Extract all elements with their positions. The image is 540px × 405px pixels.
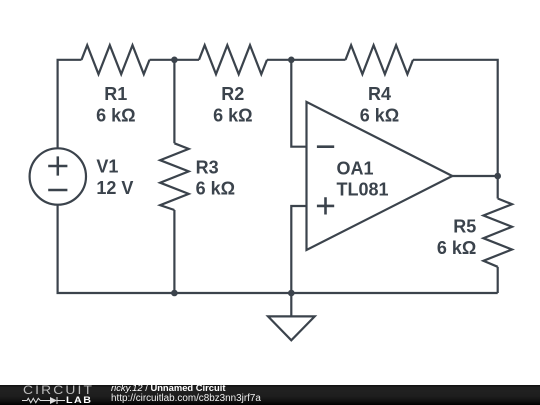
- svg-text:R4: R4: [368, 84, 391, 104]
- svg-text:R2: R2: [221, 84, 244, 104]
- resistor R5: [483, 199, 512, 267]
- wire output node down to R5: [497, 176, 499, 199]
- wire R5 to bottom rail: [497, 267, 499, 293]
- CircuitLab logo text LAB: [66, 396, 92, 405]
- op-amp plus input symbol: [317, 197, 334, 214]
- V1 minus sign: [48, 189, 67, 192]
- resistor R1: [82, 45, 150, 74]
- V1 plus sign: [48, 156, 67, 175]
- svg-text:R5: R5: [453, 217, 476, 237]
- junction output node (op-amp out / R4 / R5): [494, 173, 501, 180]
- svg-text:R3: R3: [196, 157, 219, 177]
- op-amp minus input symbol: [317, 145, 334, 148]
- junction node A (R1/R2/R3): [171, 57, 178, 64]
- wire R2 to node B: [267, 59, 291, 61]
- svg-text:6 kΩ: 6 kΩ: [213, 105, 252, 125]
- svg-text:6 kΩ: 6 kΩ: [96, 105, 135, 125]
- junction R3 bottom: [171, 290, 178, 297]
- svg-text:OA1: OA1: [337, 158, 374, 178]
- wire R3 to bottom rail: [173, 210, 175, 293]
- CircuitLab logo text CIRCUIT: [23, 385, 94, 396]
- wire R1 to node A: [150, 59, 175, 61]
- wire left rail top (V1 to top-left corner to R1): [58, 60, 82, 149]
- resistor R2: [199, 45, 267, 74]
- junction ground node: [288, 290, 295, 297]
- wire bottom rail: [58, 205, 498, 293]
- svg-text:6 kΩ: 6 kΩ: [360, 105, 399, 125]
- svg-text:6 kΩ: 6 kΩ: [437, 238, 476, 258]
- wire node A to R2: [174, 59, 199, 61]
- footer bar: [0, 385, 540, 405]
- svg-text:12 V: 12 V: [96, 178, 133, 198]
- footer credit line: [111, 383, 225, 393]
- wire node A down to R3: [173, 60, 175, 144]
- wire node B to op-amp inverting input: [291, 60, 306, 147]
- CircuitLab logo glyph (resistor + diode): [22, 396, 66, 405]
- voltage source V1: [30, 148, 86, 204]
- wire node B to R4: [291, 59, 345, 61]
- svg-text:6 kΩ: 6 kΩ: [196, 179, 235, 199]
- wire ground node to op-amp non-inverting input: [291, 206, 306, 293]
- resistor R3: [160, 143, 189, 210]
- ground stub wire: [290, 293, 292, 316]
- svg-text:V1: V1: [96, 157, 118, 177]
- wire op-amp output to output node: [451, 175, 498, 177]
- svg-text:TL081: TL081: [337, 180, 389, 200]
- wire R4 to output node (top right corner): [413, 60, 498, 176]
- ground symbol: [268, 316, 315, 340]
- junction node B (R2/R4/inverting input): [288, 57, 295, 64]
- footer url line: [111, 394, 261, 404]
- op-amp OA1: [307, 102, 453, 250]
- svg-text:R1: R1: [104, 84, 127, 104]
- resistor R4: [346, 45, 414, 74]
